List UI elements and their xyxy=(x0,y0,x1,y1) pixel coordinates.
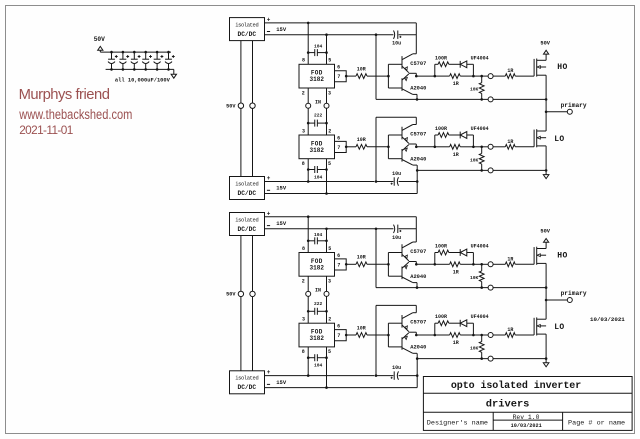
MOSFET M1H xyxy=(534,59,546,77)
svg-text:Murphys friend: Murphys friend xyxy=(19,87,110,103)
resistor 100R (M2H) xyxy=(435,244,460,265)
resistor 1R parallel (M1L) xyxy=(435,144,474,157)
svg-text:UF4004: UF4004 xyxy=(471,126,489,132)
svg-text:10R: 10R xyxy=(357,325,366,331)
svg-text:1R: 1R xyxy=(453,81,459,87)
optocoupler U1A FOD 3182 xyxy=(299,64,335,88)
wire IN right (half 2) xyxy=(326,276,328,323)
capacitor 222 input filter (half 1) xyxy=(307,113,328,127)
wire +15V rail (U1A) xyxy=(265,22,417,25)
wire source to rail (M1H) xyxy=(545,75,547,99)
svg-text:3: 3 xyxy=(328,90,331,96)
label primary (half 2) xyxy=(561,290,587,297)
resistor 10K pulldown (M1L) xyxy=(470,146,484,172)
wire VCC to collector (U2A) xyxy=(415,217,417,242)
svg-text:100R: 100R xyxy=(435,55,447,61)
wire 50V bus positive (half 2) xyxy=(240,236,242,371)
connector pin source side (M2H) xyxy=(488,285,493,290)
svg-text:8: 8 xyxy=(302,349,305,355)
svg-text:drivers: drivers xyxy=(486,398,530,410)
svg-text:isolated: isolated xyxy=(235,217,258,223)
svg-text:isolated: isolated xyxy=(235,376,258,382)
wire cap bank top rail xyxy=(100,51,171,53)
svg-text:50V: 50V xyxy=(540,229,550,235)
isolated DC/DC converter PS2A xyxy=(230,213,265,236)
pin labels of U1A xyxy=(302,58,341,97)
transistor Q1Aa NPN C5707 xyxy=(402,54,426,73)
svg-text:3: 3 xyxy=(328,279,331,285)
wire driver M2H output to node xyxy=(416,263,436,266)
label cap bank value xyxy=(115,78,171,84)
svg-text:Rev 1.0: Rev 1.0 xyxy=(513,414,540,421)
ground symbol (M2L) xyxy=(543,359,549,367)
wire -15V rail (U1A) xyxy=(265,33,378,36)
svg-text:7: 7 xyxy=(337,333,340,339)
svg-text:50V: 50V xyxy=(226,292,236,298)
svg-text:1R: 1R xyxy=(507,256,513,262)
svg-text:all 10,000uF/100V: all 10,000uF/100V xyxy=(115,78,171,84)
svg-text:50V: 50V xyxy=(540,40,550,46)
resistor 10K pulldown (M2H) xyxy=(470,263,484,289)
connector pin source side (M1H) xyxy=(488,97,493,102)
svg-text:2: 2 xyxy=(328,128,331,134)
resistor 100R (M2L) xyxy=(435,314,460,335)
label HO (M2H) xyxy=(557,251,567,260)
pins 6-7 tie bracket of U2B xyxy=(335,330,348,341)
capacitor 104 decoupling (U1A) xyxy=(307,44,328,57)
svg-text:8: 8 xyxy=(302,161,305,167)
svg-text:1R: 1R xyxy=(453,269,459,275)
svg-text:HO: HO xyxy=(557,251,567,260)
svg-text:7: 7 xyxy=(337,74,340,80)
svg-text:15V: 15V xyxy=(276,220,287,227)
svg-text:1R: 1R xyxy=(507,327,513,333)
capacitor 222 input filter (half 2) xyxy=(307,301,328,315)
pins 6-7 tie bracket of U1B xyxy=(335,141,348,152)
capacitor 10u bypass (U2B) xyxy=(376,365,417,380)
svg-text:IN: IN xyxy=(315,288,321,294)
svg-text:7: 7 xyxy=(337,262,340,268)
emitter output node of driver Q2A xyxy=(409,262,418,266)
svg-text:10K: 10K xyxy=(470,346,479,352)
diode UF4004 (M1L) xyxy=(460,126,488,148)
wire IN right (half 1) xyxy=(326,88,328,135)
base tie of driver Q2A xyxy=(387,253,402,277)
svg-text:100R: 100R xyxy=(435,244,447,250)
title designer cell xyxy=(427,420,488,428)
svg-text:3: 3 xyxy=(302,317,305,323)
capacitor C1 10000uF xyxy=(108,51,118,71)
annotation date xyxy=(19,123,73,137)
wire PNP collector to -15V (Q2B) xyxy=(416,353,419,387)
svg-text:3182: 3182 xyxy=(310,264,325,271)
svg-text:A2040: A2040 xyxy=(410,156,426,162)
svg-text:LO: LO xyxy=(554,135,564,144)
wire 50V bus positive (half 1) xyxy=(240,41,242,177)
transistor Q1Ba NPN C5707 xyxy=(402,125,426,144)
svg-text:10K: 10K xyxy=(470,275,479,281)
capacitor C4 10000uF xyxy=(142,51,152,71)
wire source reference rail (M1H) xyxy=(376,98,547,101)
svg-text:www.thebackshed.com: www.thebackshed.com xyxy=(18,105,132,122)
svg-text:6: 6 xyxy=(337,135,340,141)
svg-text:10u: 10u xyxy=(392,41,401,47)
svg-text:UF4004: UF4004 xyxy=(471,314,489,320)
wire phase node (half 2) xyxy=(545,288,548,320)
svg-text:6: 6 xyxy=(337,65,340,71)
svg-text:6: 6 xyxy=(337,253,340,259)
label primary (half 1) xyxy=(561,102,587,109)
svg-text:104: 104 xyxy=(314,174,323,180)
MOSFET M1L xyxy=(534,129,546,147)
base tie of driver Q1A xyxy=(387,64,402,88)
svg-text:100R: 100R xyxy=(435,126,447,132)
wire VCC vertical (U2B) xyxy=(375,305,377,375)
title rev cell xyxy=(513,414,540,421)
svg-text:8: 8 xyxy=(302,58,305,64)
label 50V net (half 2) xyxy=(226,292,236,298)
label LO (M2L) xyxy=(554,323,564,332)
resistor 1R parallel (M2L) xyxy=(435,333,474,346)
resistor 1R parallel (M2H) xyxy=(435,262,474,275)
capacitor C6 10000uF xyxy=(165,51,175,71)
wire source reference rail (M1L) xyxy=(417,169,547,172)
diode UF4004 (M1H) xyxy=(460,55,488,77)
label IN (half 2) xyxy=(315,288,321,294)
wire source to rail (M2H) xyxy=(545,263,547,287)
connector pin gate side (M1H) xyxy=(482,74,493,79)
svg-text:15V: 15V xyxy=(276,379,287,386)
optocoupler U1B FOD 3182 xyxy=(299,135,335,159)
wire PNP collector to VEE (Q2A) xyxy=(416,283,419,289)
base tie of driver Q2B xyxy=(387,323,402,347)
capacitor 104 decoupling (U2A) xyxy=(307,232,328,245)
wire pin5 supply (U2B) xyxy=(326,347,328,388)
wire driver M2L output to node xyxy=(416,334,436,337)
svg-text:10R: 10R xyxy=(357,67,366,73)
resistor 10R (U1B) xyxy=(346,137,388,149)
svg-text:A2040: A2040 xyxy=(410,86,426,92)
svg-text:C5707: C5707 xyxy=(410,132,426,138)
svg-text:100R: 100R xyxy=(435,314,447,320)
svg-text:10/03/2021: 10/03/2021 xyxy=(511,423,542,429)
svg-text:2: 2 xyxy=(302,279,305,285)
transistor Q2Bb PNP A2040 xyxy=(402,333,426,354)
wire pin5 supply (U2A) xyxy=(326,229,328,253)
svg-text:10K: 10K xyxy=(470,157,479,163)
svg-text:1R: 1R xyxy=(453,152,459,158)
wire VCC to collector (U1A) xyxy=(415,23,417,54)
label LO (M1L) xyxy=(554,135,564,144)
isolated DC/DC converter PS1A xyxy=(230,18,265,41)
emitter output node of driver Q2B xyxy=(409,332,418,336)
svg-text:LO: LO xyxy=(554,323,564,332)
wire source reference rail (M2L) xyxy=(417,357,547,360)
svg-text:DC/DC: DC/DC xyxy=(238,190,257,197)
svg-text:C5707: C5707 xyxy=(410,249,426,255)
wire -15V rail (U2B) xyxy=(265,386,418,389)
wire pin5 supply (U1B) xyxy=(326,159,328,194)
svg-text:5: 5 xyxy=(328,58,331,64)
svg-text:104: 104 xyxy=(314,363,323,369)
svg-text:222: 222 xyxy=(314,113,323,119)
connector pin source side (M2L) xyxy=(488,356,493,361)
connector pin gate side (M1L) xyxy=(482,144,493,149)
wire VCC to collector (Q2B) xyxy=(415,305,417,312)
diode UF4004 (M2H) xyxy=(460,244,488,266)
svg-text:10R: 10R xyxy=(357,255,366,261)
connector pin primary (half 2) xyxy=(546,298,572,303)
wire pin8 supply (U1A) xyxy=(307,23,309,64)
title date cell xyxy=(511,423,542,429)
resistor 1R gate (M1H) xyxy=(493,68,534,78)
svg-text:A2040: A2040 xyxy=(410,345,426,351)
resistor 1R parallel (M1H) xyxy=(435,74,474,87)
svg-text:Designer's name: Designer's name xyxy=(427,420,488,428)
wire source reference rail (M2H) xyxy=(376,286,547,289)
label +15V/- for PS2B xyxy=(267,369,287,386)
svg-text:222: 222 xyxy=(314,301,323,307)
wire phase node (half 1) xyxy=(545,99,548,131)
svg-text:10/03/2021: 10/03/2021 xyxy=(590,316,625,323)
wire VEE vertical (U1A) xyxy=(375,35,377,100)
MOSFET M2L xyxy=(534,317,546,335)
base tie of driver Q1B xyxy=(387,135,402,159)
svg-text:opto isolated inverter: opto isolated inverter xyxy=(451,380,581,392)
transistor Q1Ab PNP A2040 xyxy=(402,74,426,95)
svg-text:10u: 10u xyxy=(392,235,401,241)
pin labels of U2A xyxy=(302,246,341,285)
pin labels of U2B xyxy=(302,317,341,356)
emitter output node of driver Q1A xyxy=(409,73,418,77)
wire source to rail (M2L) xyxy=(545,334,547,359)
title page cell xyxy=(568,420,625,428)
connector pin gate side (M2H) xyxy=(482,262,493,267)
wire driver M1H output to node xyxy=(416,75,436,78)
svg-text:50V: 50V xyxy=(94,36,105,43)
wire -15V rail (U1B) xyxy=(265,192,418,195)
isolated DC/DC converter PS2B xyxy=(230,371,265,394)
svg-text:6: 6 xyxy=(337,324,340,330)
emitter output node of driver Q1B xyxy=(409,144,418,148)
resistor 100R (M1L) xyxy=(435,126,460,147)
svg-text:3182: 3182 xyxy=(310,76,325,83)
wire VEE vertical (U2A) xyxy=(375,229,377,288)
svg-text:5: 5 xyxy=(328,246,331,252)
svg-text:3182: 3182 xyxy=(310,335,325,342)
wire PNP collector to -15V (Q1B) xyxy=(416,165,419,193)
capacitor 104 decoupling (U1B) xyxy=(307,166,328,180)
svg-text:1R: 1R xyxy=(507,139,513,145)
wire +15V rail (U1B) xyxy=(265,180,378,183)
capacitor 104 decoupling (U2B) xyxy=(307,354,328,368)
resistor 1R gate (M2L) xyxy=(493,327,534,337)
pin labels of U1B xyxy=(302,128,341,167)
resistor 100R (M1H) xyxy=(435,55,460,76)
svg-text:C5707: C5707 xyxy=(410,320,426,326)
transistor Q2Aa NPN C5707 xyxy=(402,242,426,261)
resistor 1R gate (M1L) xyxy=(493,139,534,149)
svg-text:2: 2 xyxy=(302,90,305,96)
svg-text:5: 5 xyxy=(328,161,331,167)
svg-text:Page # or name: Page # or name xyxy=(568,420,625,428)
svg-text:2: 2 xyxy=(328,317,331,323)
MOSFET M2H xyxy=(534,247,546,265)
wire PNP collector to VEE (Q1A) xyxy=(416,94,419,100)
wire pin8 supply (U2B) xyxy=(307,347,309,376)
wire source to rail (M1L) xyxy=(545,146,547,171)
svg-text:DC/DC: DC/DC xyxy=(238,226,257,233)
label +15V/- for PS1B xyxy=(267,175,287,192)
resistor 10R (U2A) xyxy=(346,255,388,267)
svg-text:C5707: C5707 xyxy=(410,61,426,67)
svg-text:5: 5 xyxy=(328,349,331,355)
svg-text:10R: 10R xyxy=(357,137,366,143)
connector pin primary (half 1) xyxy=(546,109,572,114)
wire cap bank bottom rail xyxy=(106,68,174,70)
resistor 10K pulldown (M1H) xyxy=(470,75,484,101)
50V supply arrow at drain (M2H) xyxy=(540,229,550,249)
capacitor C3 10000uF xyxy=(131,51,141,71)
50V supply arrow at drain (M1H) xyxy=(540,40,550,60)
svg-text:UF4004: UF4004 xyxy=(471,244,489,250)
isolated DC/DC converter PS1B xyxy=(230,177,265,200)
svg-text:10u: 10u xyxy=(392,365,401,371)
svg-text:2021-11-01: 2021-11-01 xyxy=(19,123,73,137)
optocoupler U2A FOD 3182 xyxy=(299,253,335,277)
connector pin source side (M1L) xyxy=(488,168,493,173)
connector pins IN (half 2) xyxy=(306,291,329,296)
svg-text:15V: 15V xyxy=(276,26,287,33)
connector pins 50V input (half 1) xyxy=(238,103,255,108)
title text line2 xyxy=(486,398,530,410)
svg-text:50V: 50V xyxy=(226,104,236,110)
wire VCC vertical (U1B) xyxy=(375,117,377,181)
wire VCC top (U1B) xyxy=(376,116,416,118)
annotation website xyxy=(18,105,132,122)
resistor 1R gate (M2H) xyxy=(493,256,534,266)
resistor 10K pulldown (M2L) xyxy=(470,334,484,360)
pins 6-7 tie bracket of U2A xyxy=(335,259,348,270)
wire IN left (half 1) xyxy=(307,88,309,135)
wire 50V bus return (half 1) xyxy=(252,41,254,177)
svg-text:A2040: A2040 xyxy=(410,274,426,280)
50V input arrow (cap bank) xyxy=(94,36,105,52)
svg-text:isolated: isolated xyxy=(235,181,258,187)
svg-text:1R: 1R xyxy=(453,340,459,346)
wire +15V rail (U2A) xyxy=(265,215,417,218)
capacitor 10u bypass (U1B) xyxy=(376,171,417,186)
svg-text:104: 104 xyxy=(314,232,323,238)
connector pin gate side (M2L) xyxy=(482,333,493,338)
output arrow (cap bank) xyxy=(171,69,176,78)
connector pins IN (half 1) xyxy=(306,103,329,108)
pins 6-7 tie bracket of U1A xyxy=(335,71,348,82)
capacitor 10u bypass (U2A) xyxy=(376,225,416,241)
resistor 10R (U1A) xyxy=(346,67,388,79)
connector pins 50V input (half 2) xyxy=(238,291,255,296)
wire 50V bus return (half 2) xyxy=(252,236,254,371)
wire driver M1L output to node xyxy=(416,146,436,149)
diode UF4004 (M2L) xyxy=(460,314,488,336)
label IN (half 1) xyxy=(315,99,321,105)
svg-text:7: 7 xyxy=(337,145,340,151)
svg-text:104: 104 xyxy=(314,44,323,50)
wire pin8 supply (U1B) xyxy=(307,159,309,182)
svg-text:primary: primary xyxy=(561,290,587,297)
svg-text:3182: 3182 xyxy=(310,147,325,154)
svg-text:isolated: isolated xyxy=(235,22,258,28)
label HO (M1H) xyxy=(557,63,567,72)
svg-text:1R: 1R xyxy=(507,68,513,74)
svg-text:8: 8 xyxy=(302,246,305,252)
wire VCC to collector (Q1B) xyxy=(415,117,417,124)
annotation date right xyxy=(590,316,625,323)
optocoupler U2B FOD 3182 xyxy=(299,323,335,347)
title block frame xyxy=(423,377,632,431)
wire pin5 supply (U1A) xyxy=(326,35,328,65)
svg-text:DC/DC: DC/DC xyxy=(238,384,257,391)
svg-text:UF4004: UF4004 xyxy=(471,55,489,61)
capacitor C2 10000uF xyxy=(119,51,129,71)
svg-text:DC/DC: DC/DC xyxy=(238,31,257,38)
label 50V net (half 1) xyxy=(226,104,236,110)
svg-text:HO: HO xyxy=(557,63,567,72)
annotation author name xyxy=(19,87,110,103)
title text line1 xyxy=(451,380,581,392)
svg-text:15V: 15V xyxy=(276,185,287,192)
wire pin8 supply (U2A) xyxy=(307,217,309,253)
svg-text:IN: IN xyxy=(315,99,321,105)
label +15V/- for PS1A xyxy=(267,17,287,34)
capacitor C5 10000uF xyxy=(154,51,164,71)
wire VCC top (U2B) xyxy=(376,304,416,306)
resistor 10R (U2B) xyxy=(346,325,388,337)
svg-text:10u: 10u xyxy=(392,171,401,177)
wire -15V rail (U2A) xyxy=(265,228,378,231)
svg-text:primary: primary xyxy=(561,102,587,109)
transistor Q2Ba NPN C5707 xyxy=(402,313,426,332)
svg-text:10K: 10K xyxy=(470,87,479,93)
wire IN left (half 2) xyxy=(307,276,309,323)
svg-text:3: 3 xyxy=(302,128,305,134)
wire +15V rail (U2B) xyxy=(265,374,378,377)
ground symbol (M1L) xyxy=(543,170,549,178)
transistor Q1Bb PNP A2040 xyxy=(402,145,426,166)
transistor Q2Ab PNP A2040 xyxy=(402,262,426,283)
label +15V/- for PS2A xyxy=(267,210,287,227)
capacitor 10u bypass (U1A) xyxy=(376,31,416,47)
